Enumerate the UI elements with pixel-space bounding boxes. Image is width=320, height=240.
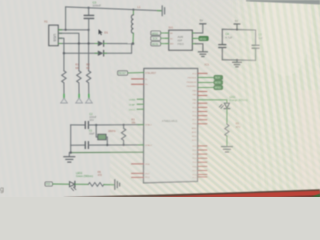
LED1 [219,96,247,124]
inductor L1 [131,5,141,44]
pink tinge right edge [298,90,320,190]
resistor R5 [225,121,241,146]
net flag MISO [151,31,166,35]
wire top [222,28,255,31]
bezel dark bottom [277,195,320,197]
junction [78,42,80,44]
cursor [99,29,103,35]
bezel red line [147,191,320,197]
ISP header SV1 [166,27,196,51]
wire USB pin2 to R1 column [58,33,79,71]
resistor R1 [75,63,81,96]
moire overlay on top of schematic [110,0,320,197]
resistor R6 [88,183,104,187]
pin stub red left (D-) [132,78,144,80]
wire VBUS down to USB pin1 [65,7,67,30]
capacitor C3 [84,0,101,30]
light band right [262,0,310,76]
ground flag under R1 [76,95,83,103]
wire C3 column down to R2 [88,30,90,71]
capacitor C4 / C5 group [219,19,264,67]
wire bottom rail [71,151,144,153]
junction diode node [132,42,135,45]
IC1 ATMEGA8U2 [144,63,210,183]
faint left vertical texture [0,0,200,197]
top-right dark band [250,0,320,5]
ground flag under R2 [86,95,93,103]
junction C3/rail [87,7,89,9]
ground crystal [64,153,75,163]
wire USB pin1 row [58,29,88,31]
right pin names inside IC [187,73,198,179]
ground under ISP [195,44,207,57]
pin stubs green left (UGND UCAP UVCC) [129,99,144,111]
wire bottom [222,59,255,62]
ground sideways [114,180,116,190]
capacitor C4 [221,29,223,44]
ground (sideways) at rail end [158,6,165,16]
capacitor C6 [85,122,88,129]
junction [95,124,97,126]
junction [63,52,65,54]
crystal Q1 [96,125,116,145]
wire top VBUS rail [66,7,161,11]
net flag MISO right [198,85,223,89]
wire to LED1 [198,100,227,103]
bezel green corner [311,194,320,197]
ground flag under R4 [61,95,68,103]
pin stubs red right mid [198,103,207,124]
moire stripes right side [110,0,320,197]
wire [52,183,69,185]
supply 5V at ISP [195,19,206,33]
top-right dark edge band [246,0,320,4]
capacitor C7 [85,142,88,149]
pin stubs red right lower [198,146,207,177]
junction L1/rail [132,9,134,11]
junction [70,151,72,153]
capacitor C5 [255,30,257,45]
wire XTAL1 [71,124,85,126]
junction [65,29,67,31]
supply 5V [236,24,238,29]
net flag [45,182,52,186]
bottom bezel strip [64,189,320,197]
LED2 [70,182,75,187]
wire [75,183,88,185]
pin stub red left (D+) [132,83,144,85]
pin stub red right row1 [198,72,207,74]
net flag SCK right [198,75,223,79]
net flag SCK [151,36,166,40]
ground under LED1 [221,147,232,152]
ground [236,60,238,62]
wire USB pin3 down to D2/R4 [58,38,64,71]
svg-text:g: g [0,187,4,194]
LED2 circuit bottom [45,171,120,191]
net flag RESET right of ISP [195,36,208,41]
junction [106,144,108,146]
net flag MOSI [151,42,166,46]
resistor R3 [121,118,136,144]
USB connector X1 [44,20,62,46]
diode D2 [64,44,132,56]
net flag MOSI right [198,80,223,84]
resistor R4 [62,71,66,96]
pin stubs red right upper [198,92,207,96]
wire left vertical [70,125,72,153]
resistor R2 [86,63,91,96]
junction [87,42,89,44]
net flag RESET [118,71,144,75]
wire XTAL2 [71,144,85,146]
wire [104,184,114,186]
diode D1 [58,41,133,46]
pin stubs red left bottom [132,164,144,178]
